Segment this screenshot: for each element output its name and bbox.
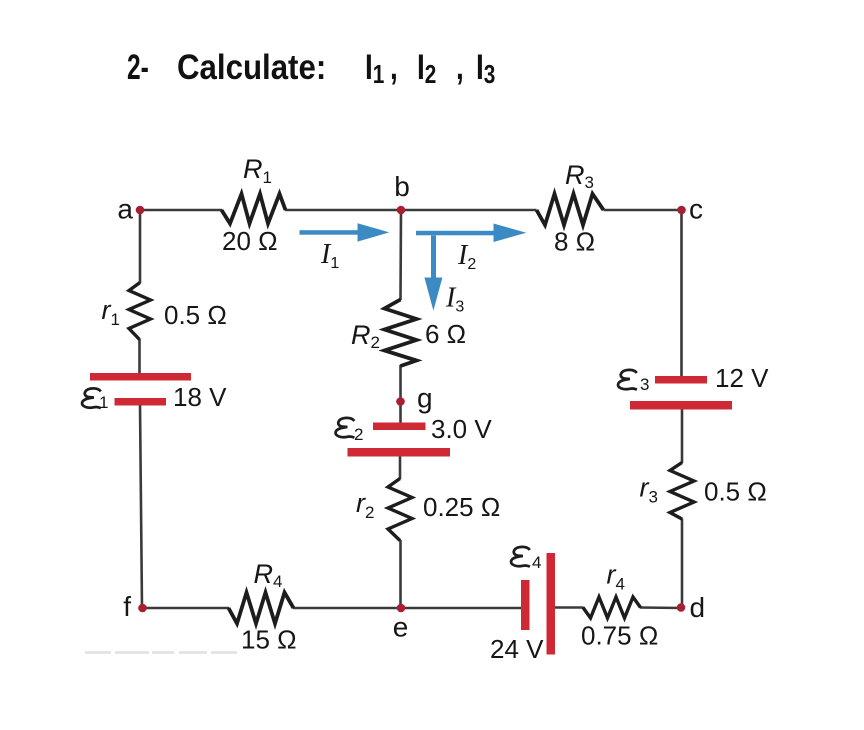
node e — [397, 604, 406, 613]
svg-text:e: e — [393, 612, 409, 643]
wire a-R1 (top left horizontal) — [140, 209, 222, 212]
svg-text:15 Ω: 15 Ω — [241, 625, 297, 655]
svg-text:r4: r4 — [607, 560, 625, 594]
faint watermark line bottom left — [85, 651, 240, 654]
node g — [396, 397, 405, 406]
battery E2 short plate — [373, 423, 426, 431]
node c — [677, 206, 686, 215]
svg-text:8 Ω: 8 Ω — [554, 227, 595, 257]
svg-text:b: b — [394, 171, 410, 202]
svg-text:12 V: 12 V — [715, 363, 769, 393]
resistor R1 zigzag — [222, 194, 286, 224]
wire f-R4 (bottom left horizontal) — [143, 607, 230, 610]
svg-text:R1: R1 — [243, 154, 272, 187]
battery E3 long plate — [630, 401, 732, 410]
wire c-E3 (right vertical upper) — [680, 210, 683, 377]
wire R1-b-R3 (top middle horizontal) — [285, 209, 537, 212]
resistor r4 zigzag — [583, 597, 641, 618]
svg-text:r3: r3 — [640, 473, 658, 507]
node d — [677, 603, 686, 612]
battery E4 label — [511, 547, 530, 567]
svg-text:0.25 Ω: 0.25 Ω — [423, 492, 500, 522]
node f — [138, 604, 147, 613]
resistor R2 zigzag — [385, 300, 417, 367]
svg-text:6 Ω: 6 Ω — [425, 319, 466, 349]
battery E3 short plate — [655, 376, 707, 384]
svg-text:g: g — [417, 383, 433, 414]
resistor r2 zigzag — [388, 479, 412, 541]
svg-text:0.5 Ω: 0.5 Ω — [704, 477, 767, 507]
wire R3-c (top right horizontal) — [604, 209, 682, 212]
svg-text:24 V: 24 V — [490, 634, 544, 664]
svg-text:R3: R3 — [565, 160, 594, 192]
wire R4-e-E4 (bottom middle horizontal) — [293, 607, 521, 610]
svg-text:3: 3 — [640, 375, 649, 394]
svg-text:2: 2 — [354, 425, 363, 444]
node a — [136, 206, 145, 215]
battery E2 long plate — [348, 448, 451, 457]
svg-text:I3: I3 — [445, 283, 464, 316]
svg-text:c: c — [689, 194, 703, 225]
wire a-r1 (left vertical upper) — [139, 210, 142, 283]
wire r3-d (right vertical lower) — [681, 519, 684, 609]
svg-text:0.75 Ω: 0.75 Ω — [581, 621, 658, 651]
resistor R4 zigzag — [229, 593, 294, 624]
svg-text:R4: R4 — [254, 559, 283, 591]
battery E1 label — [82, 388, 101, 408]
wire E2-r2 — [399, 456, 402, 479]
battery E1 short plate — [115, 398, 167, 406]
battery E3 label — [618, 370, 637, 390]
wire r4-d (bottom right horizontal) — [640, 606, 682, 609]
svg-text:3.0 V: 3.0 V — [431, 414, 492, 444]
wire E1-f (left vertical lower) — [140, 405, 142, 608]
svg-text:f: f — [123, 591, 131, 622]
resistor r1 zigzag — [129, 283, 151, 340]
svg-text:I1: I1 — [320, 239, 339, 272]
wire R2-g-E2 — [399, 365, 402, 423]
battery E4 long plate — [547, 553, 556, 655]
svg-text:r2: r2 — [356, 488, 374, 522]
svg-text:0.5 Ω: 0.5 Ω — [164, 300, 227, 330]
svg-text:R2: R2 — [351, 320, 380, 352]
svg-text:20 Ω: 20 Ω — [222, 226, 278, 256]
wire E4-r4 — [555, 606, 584, 609]
wire E3-r3 — [681, 409, 684, 463]
wire r2-e (middle vertical lower) — [399, 540, 402, 608]
wire b-R2 (middle vertical upper) — [399, 210, 402, 300]
svg-text:r1: r1 — [102, 295, 120, 329]
current arrow I2 — [416, 224, 526, 243]
svg-text:a: a — [117, 194, 133, 225]
resistor R3 zigzag — [537, 194, 604, 225]
title: 2- Calculate: I1, I2, I3 — [127, 48, 149, 88]
svg-text:4: 4 — [532, 553, 541, 572]
battery E1 long plate — [90, 373, 191, 381]
wire r1-E1 — [138, 339, 141, 374]
svg-text:d: d — [690, 592, 706, 623]
svg-text:18 V: 18 V — [173, 382, 227, 412]
resistor r3 zigzag — [670, 463, 694, 520]
svg-text:1: 1 — [99, 393, 108, 412]
current arrow I3 — [424, 236, 442, 311]
battery E2 label — [336, 418, 355, 438]
battery E4 short plate — [521, 580, 530, 630]
node b — [397, 206, 406, 215]
current arrow I1 — [300, 223, 390, 241]
svg-text:I2: I2 — [457, 240, 476, 273]
